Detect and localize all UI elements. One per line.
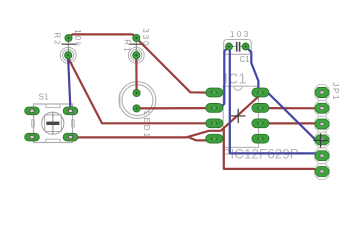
svg-text:C1: C1 [240,55,251,64]
svg-text:LED1: LED1 [142,111,151,139]
svg-text:S1: S1 [39,92,49,101]
svg-text:10k: 10k [73,29,82,48]
svg-text:103: 103 [230,30,251,39]
svg-text:JP1: JP1 [331,82,340,101]
svg-text:IC1: IC1 [224,71,247,87]
svg-text:R2: R2 [53,32,62,46]
svg-text:R1: R1 [122,39,131,53]
